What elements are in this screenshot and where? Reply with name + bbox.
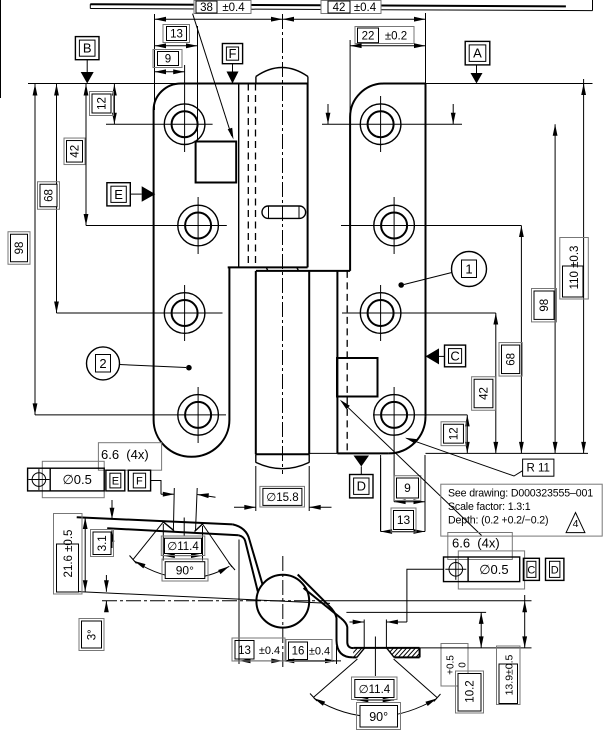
svg-text:98: 98 [14, 242, 26, 255]
svg-text:98: 98 [539, 299, 551, 312]
svg-text:68: 68 [506, 353, 518, 366]
svg-text:See drawing: D000323555–001: See drawing: D000323555–001 [448, 488, 593, 500]
svg-text:16: 16 [292, 646, 305, 658]
svg-text:90°: 90° [176, 564, 194, 578]
svg-text:∅11.4: ∅11.4 [359, 684, 391, 696]
svg-text:3.1: 3.1 [97, 535, 109, 551]
svg-text:38: 38 [200, 2, 213, 14]
svg-text:R 11: R 11 [526, 463, 549, 475]
svg-text:4: 4 [573, 518, 579, 530]
svg-text:13: 13 [397, 513, 411, 527]
svg-text:13: 13 [238, 645, 251, 657]
svg-text:±0.4: ±0.4 [309, 646, 330, 658]
svg-text:±0.4: ±0.4 [259, 645, 280, 657]
svg-text:E: E [112, 476, 119, 488]
svg-text:D: D [357, 479, 366, 494]
svg-text:9: 9 [404, 481, 411, 495]
svg-text:2: 2 [99, 356, 106, 371]
svg-text:Depth: (0.2 +0.2/−0.2): Depth: (0.2 +0.2/−0.2) [448, 515, 548, 527]
svg-text:B: B [83, 41, 92, 56]
svg-text:10.2: 10.2 [465, 680, 477, 702]
svg-text:±0.4: ±0.4 [222, 2, 245, 14]
svg-text:∅15.8: ∅15.8 [266, 492, 298, 504]
svg-text:0: 0 [458, 662, 469, 668]
svg-text:12: 12 [97, 97, 109, 110]
svg-text:22: 22 [362, 31, 375, 43]
svg-text:90°: 90° [369, 710, 388, 724]
svg-text:∅0.5: ∅0.5 [479, 562, 508, 577]
svg-text:42: 42 [70, 145, 82, 158]
svg-text:68: 68 [44, 189, 56, 202]
svg-text:110 ±0.3: 110 ±0.3 [569, 246, 581, 290]
svg-text:∅0.5: ∅0.5 [62, 472, 91, 487]
svg-text:3°: 3° [87, 629, 99, 640]
svg-text:∅11.4: ∅11.4 [167, 541, 199, 553]
svg-text:42: 42 [479, 387, 491, 400]
svg-text:13.9±0.5: 13.9±0.5 [503, 654, 515, 695]
svg-text:6.6 (4x): 6.6 (4x) [101, 447, 149, 462]
svg-text:42: 42 [333, 2, 346, 14]
svg-text:E: E [114, 187, 123, 202]
svg-text:±0.2: ±0.2 [385, 31, 407, 43]
svg-text:6.6 (4x): 6.6 (4x) [452, 536, 500, 551]
svg-text:13: 13 [170, 29, 183, 41]
svg-text:F: F [229, 46, 237, 61]
svg-text:9: 9 [165, 54, 171, 66]
svg-text:+0.5: +0.5 [446, 655, 457, 675]
svg-text:12: 12 [449, 427, 461, 440]
svg-text:D: D [551, 564, 559, 576]
svg-text:A: A [473, 46, 482, 61]
svg-text:C: C [450, 348, 459, 363]
svg-text:21.6 ±0.5: 21.6 ±0.5 [63, 530, 75, 578]
svg-text:Scale factor: 1.3:1: Scale factor: 1.3:1 [448, 501, 531, 513]
svg-text:±0.4: ±0.4 [354, 2, 377, 14]
svg-text:C: C [527, 564, 535, 576]
svg-text:F: F [136, 476, 143, 488]
svg-text:1: 1 [465, 262, 472, 277]
